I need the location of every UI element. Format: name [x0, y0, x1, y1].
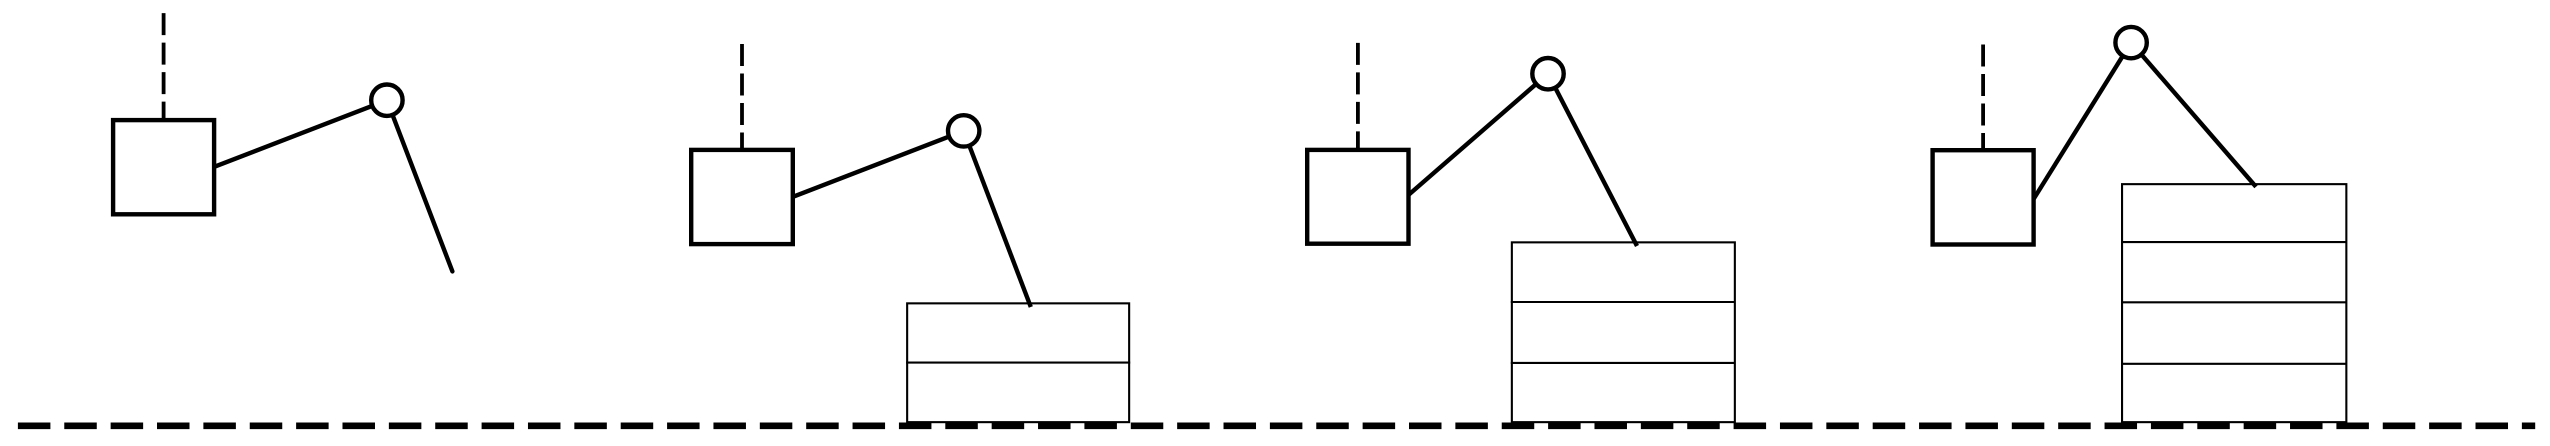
figure 4: link from square to joint: [2033, 43, 2131, 200]
figure 2: link from joint to stack: [964, 131, 1031, 307]
figure 3: link from joint to stack: [1548, 74, 1637, 246]
ground dashed line: [18, 422, 2535, 429]
figure 1: gripper square: [113, 120, 214, 214]
figure 3: suspension dashed line: [1356, 43, 1360, 150]
figure 4: revolute joint circle: [2115, 27, 2146, 58]
figure 3: link from square to joint: [1408, 74, 1548, 196]
figure 1: revolute joint circle: [371, 85, 402, 116]
figure 1: suspension dashed line: [162, 13, 166, 119]
figure 2: suspension dashed line: [740, 44, 744, 150]
figure 4: gripper square: [1933, 150, 2034, 244]
figure 1: free swinging link: [387, 100, 453, 271]
figure 3: block stack (3 blocks): [1511, 242, 1735, 422]
figure 4: block stack (4 blocks): [2121, 184, 2346, 422]
figure 2: gripper square: [691, 150, 793, 244]
figure 2: link from square to joint: [792, 131, 964, 197]
figure 4: suspension dashed line: [1981, 45, 1985, 151]
figure 2: block stack (2 blocks): [906, 303, 1130, 422]
figure 1: link from square to joint: [213, 100, 387, 167]
figure 4: link from joint to stack: [2131, 43, 2256, 187]
figure 2: revolute joint circle: [948, 115, 979, 146]
figure 3: revolute joint circle: [1532, 58, 1563, 89]
figure 3: gripper square: [1307, 150, 1408, 244]
